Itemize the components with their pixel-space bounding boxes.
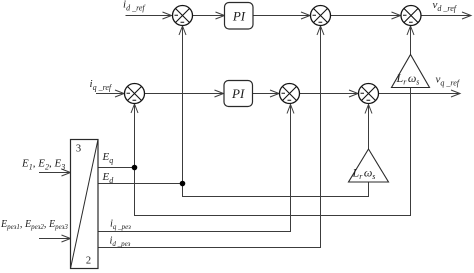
svg-text:iq _рез: iq _рез [110, 219, 131, 231]
wire v_q_ref output [379, 90, 460, 97]
svg-text:iq _ref: iq _ref [90, 78, 113, 92]
summing junction J2q [280, 84, 300, 104]
wire E_d from block [98, 183, 183, 185]
svg-text:PI: PI [231, 86, 245, 101]
wire E_rez input [39, 235, 71, 242]
svg-text:Lrωs: Lrωs [352, 166, 376, 182]
svg-text:2: 2 [86, 256, 91, 267]
wire E1 E2 E3 input [39, 169, 71, 176]
svg-text:PI: PI [232, 9, 246, 24]
gain block G1 L_r*omega_s [392, 55, 430, 88]
summing junction J1d [173, 6, 193, 26]
coordinate transform block 3->2 [71, 140, 99, 269]
svg-text:vd _ref: vd _ref [433, 0, 458, 13]
wire PI1 to J2d [253, 12, 310, 19]
svg-text:E1, E2, E3: E1, E2, E3 [21, 158, 65, 172]
wire J2q to J3q [300, 90, 359, 97]
wire i_q_ref input [96, 90, 124, 97]
wire i_q_rez feedback to J2q [98, 105, 294, 232]
wire v_d_ref output [421, 12, 471, 19]
summing junction J2d [311, 6, 331, 26]
svg-text:Ed: Ed [102, 171, 115, 185]
wire J2d to J3d [331, 12, 401, 19]
svg-text:Eq: Eq [102, 151, 114, 165]
gain block G2 L_r*omega_s [349, 149, 389, 182]
svg-text:vq _ref: vq _ref [436, 74, 461, 88]
PI controller block PI1 [225, 3, 254, 30]
svg-text:id _рез: id _рез [110, 236, 131, 248]
summing junction J3d [401, 6, 421, 26]
svg-text:Lrωs: Lrωs [396, 71, 420, 87]
summing junction J1q [125, 84, 145, 104]
wire E_d branch to gain G2 [183, 182, 369, 197]
wire i_d_rez feedback to J2d [98, 26, 324, 248]
wire E_d feedback up to J1d [179, 26, 186, 184]
wire E_q branch to gain G1 [135, 87, 411, 216]
PI controller block PI2 [224, 81, 253, 107]
wire gain G2 to J3q [365, 105, 372, 150]
svg-text:3: 3 [76, 144, 81, 155]
wire E_q feedback up to J1q [131, 104, 138, 168]
wire i_d_ref input [126, 12, 172, 19]
wire gain G1 to J3d [407, 26, 414, 55]
svg-text:id _ref: id _ref [123, 0, 146, 12]
node E_d junction dot [180, 181, 186, 187]
node E_q junction dot [132, 165, 138, 171]
wire PI2 to J2q [253, 90, 280, 97]
wire J1q to PI2 [145, 90, 224, 97]
wire J1d to PI1 [193, 12, 225, 19]
svg-text:Eрез1, Eрез2, Eрез3: Eрез1, Eрез2, Eрез3 [0, 219, 68, 231]
wire E_q from block [98, 167, 135, 169]
summing junction J3q [359, 84, 379, 104]
